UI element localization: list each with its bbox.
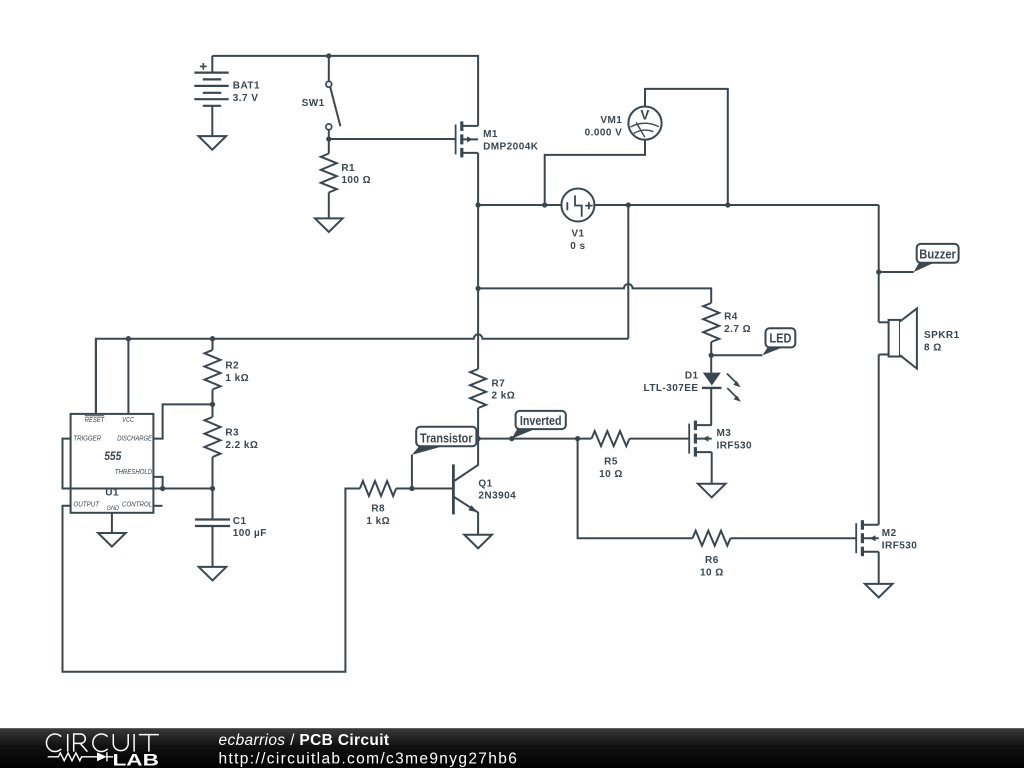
R7 label [492, 378, 516, 401]
resistor R4 [703, 303, 719, 355]
svg-text:TRIGGER: TRIGGER [73, 434, 101, 443]
junction VCC rail / VCC pin [126, 336, 131, 341]
svg-text:RESET: RESET [85, 415, 105, 424]
svg-text:CONTROL: CONTROL [122, 500, 152, 509]
voltmeter VM1 [628, 107, 661, 140]
wire right rail mid to speaker top [878, 205, 880, 322]
SW1 label [302, 98, 325, 109]
svg-text:OUTPUT: OUTPUT [73, 500, 99, 509]
svg-text:Transistor: Transistor [420, 430, 473, 445]
svg-text:BAT1: BAT1 [233, 81, 260, 92]
op-amp U1 555 timer box [71, 414, 154, 513]
svg-text:8 Ω: 8 Ω [924, 343, 942, 354]
wire mid rail right of V1 [594, 204, 878, 206]
ground below R1 [315, 218, 343, 232]
transistor M2 label [882, 528, 918, 551]
battery BAT1 [194, 56, 228, 136]
resistor R1 [321, 139, 337, 218]
resistor R5 [592, 431, 690, 446]
svg-text:100 µF: 100 µF [233, 528, 267, 539]
resistor R3 [205, 404, 221, 488]
U1 label [105, 487, 119, 498]
svg-text:2.7 Ω: 2.7 Ω [724, 324, 751, 335]
wire TRIGGER to threshold rail [63, 439, 213, 489]
transistor M3 [689, 421, 712, 457]
voltage source V1 [561, 189, 594, 222]
svg-text:DISCHARGE: DISCHARGE [117, 434, 152, 443]
CircuitLab logo [46, 734, 158, 768]
footer title text [219, 732, 519, 768]
wire 555 GND stub [111, 513, 113, 533]
SPKR1 label [924, 330, 960, 353]
transistor M1 [456, 121, 479, 157]
junction R7 / Q1 collector / inverted rail [475, 436, 480, 441]
wire speaker bottom to M2 drain [878, 355, 880, 525]
junction threshold rail / THRESHOLD pin [160, 486, 165, 491]
wire THRESHOLD pin stub [153, 477, 162, 489]
resistor R2 [205, 339, 221, 405]
svg-text:SW1: SW1 [302, 98, 325, 109]
transistor M3 label [717, 428, 753, 451]
svg-text:555: 555 [104, 451, 122, 463]
footer bar [0, 728, 1024, 768]
Q1 label [478, 478, 516, 501]
svg-text:LTL-307EE: LTL-307EE [644, 383, 699, 394]
transistor Q1 [453, 439, 478, 535]
svg-text:0.000 V: 0.000 V [585, 128, 623, 139]
C1 label [233, 516, 267, 539]
ground below C1 [199, 567, 227, 581]
svg-text:Q1: Q1 [478, 478, 492, 489]
junction M1 drain / mid rail [475, 202, 480, 207]
svg-text:ecbarrios / PCB Circuit: ecbarrios / PCB Circuit [219, 732, 390, 749]
svg-text:10 Ω: 10 Ω [599, 469, 623, 480]
junction mid rail / VM1 return [542, 202, 547, 207]
svg-text:SPKR1: SPKR1 [924, 330, 960, 341]
V1 label [570, 229, 585, 252]
svg-text:3.7 V: 3.7 V [233, 93, 259, 104]
svg-text:2 kΩ: 2 kΩ [492, 391, 516, 402]
ground below Q1 [464, 535, 492, 549]
R5 label [599, 457, 623, 480]
junction R3 / C1 / threshold rail [210, 486, 215, 491]
transistor M2 [856, 520, 879, 556]
svg-text:C1: C1 [233, 516, 247, 527]
ground below BAT1 [199, 136, 227, 150]
R4 label [724, 312, 751, 335]
svg-text:LED: LED [769, 331, 791, 346]
R6 label [700, 555, 724, 578]
svg-text:R8: R8 [371, 504, 385, 515]
junction inverted rail / R6 branch [575, 436, 580, 441]
svg-text:LAB: LAB [113, 750, 159, 768]
svg-text:R5: R5 [604, 457, 618, 468]
junction VCC rail / R2 [210, 336, 215, 341]
switch SW1 [326, 56, 341, 139]
svg-text:10 Ω: 10 Ω [700, 567, 724, 578]
wire DISCHARGE to R2-R3 node [153, 404, 212, 438]
svg-text:IRF530: IRF530 [717, 441, 753, 452]
junction mid rail / VM1 top lead [725, 202, 730, 207]
junction top rail / SW1 [326, 53, 331, 58]
ground below M2 [865, 584, 893, 598]
svg-text:DMP2004K: DMP2004K [483, 142, 539, 153]
svg-text:2.2 kΩ: 2.2 kΩ [225, 440, 258, 451]
junction M1 drain line / R4 rail [475, 286, 480, 291]
transistor M1 label [483, 129, 539, 152]
junction SW1 / R1 / M1 gate [326, 136, 331, 141]
svg-text:GND: GND [107, 505, 120, 512]
svg-text:VM1: VM1 [600, 115, 622, 126]
junction R4 / D1 / LED flag [709, 353, 714, 358]
wire M3 source to ground [711, 452, 713, 484]
D1 label [644, 371, 699, 394]
node flag LED [711, 328, 795, 355]
node flag Buzzer [879, 244, 959, 272]
wire mid rail left of V1 [478, 204, 561, 206]
wire inverted rail [478, 438, 591, 440]
junction right rail / Buzzer flag [876, 269, 881, 274]
wire mid rail down to 555 VCC rail [627, 205, 629, 339]
wire VM1 top lead [645, 89, 728, 205]
wire CONTROL stub [153, 505, 162, 507]
wire M2 source to ground [878, 552, 880, 584]
svg-text:Inverted: Inverted [520, 413, 562, 428]
R1 label [341, 163, 371, 186]
svg-text:VCC: VCC [122, 415, 134, 424]
ground below 555 [98, 533, 126, 547]
junction inverted rail / Inverted flag [509, 436, 514, 441]
ground below M3 [698, 484, 726, 498]
svg-text:Buzzer: Buzzer [919, 246, 956, 261]
svg-text:M3: M3 [717, 428, 732, 439]
VM1 label [585, 115, 623, 138]
speaker SPKR1 [879, 308, 917, 368]
svg-text:M1: M1 [483, 129, 498, 140]
wire RESET pin stub [95, 339, 97, 414]
svg-text:R7: R7 [492, 378, 506, 389]
R8 label [366, 504, 390, 527]
wire VM1 bottom lead [545, 140, 645, 205]
BAT1 label [233, 81, 260, 104]
svg-text:R3: R3 [225, 428, 239, 439]
pin RESET overline [85, 415, 105, 417]
svg-text:R2: R2 [225, 361, 239, 372]
wire top rail from BAT1 to M1 source [212, 56, 478, 126]
svg-text:http://circuitlab.com/c3me9nyg: http://circuitlab.com/c3me9nyg27hb6 [219, 751, 519, 768]
node flag Inverted [512, 411, 566, 439]
junction R8 / Q1 base / Transistor flag [409, 486, 414, 491]
svg-text:IRF530: IRF530 [882, 540, 918, 551]
R2 label [225, 361, 249, 384]
svg-text:THRESHOLD: THRESHOLD [115, 467, 152, 476]
diode D1 LED [702, 355, 741, 425]
svg-text:1 kΩ: 1 kΩ [366, 516, 390, 527]
svg-text:V1: V1 [571, 229, 584, 240]
svg-text:V: V [640, 108, 649, 123]
junction mid rail / 555 supply branch [626, 202, 631, 207]
svg-text:0 s: 0 s [570, 241, 585, 252]
wire inverted rail down to R6 [578, 439, 693, 539]
wire SW1-R1 node to M1 gate [329, 138, 456, 140]
wire OUTPUT to R8 [63, 489, 360, 672]
svg-text:R6: R6 [705, 555, 719, 566]
wire mid rail to R4 (hops over 555 branch) [478, 284, 711, 303]
svg-text:M2: M2 [882, 528, 897, 539]
wire M1 drain down to R7 [477, 153, 479, 369]
svg-text:2N3904: 2N3904 [478, 491, 516, 502]
svg-text:1 kΩ: 1 kΩ [225, 373, 249, 384]
wire 555 VCC rail (hops over R7 line) [96, 334, 628, 414]
resistor R8 [360, 481, 454, 496]
capacitor C1 [195, 489, 230, 567]
svg-text:R4: R4 [724, 312, 738, 323]
node flag Transistor [412, 427, 477, 489]
svg-text:D1: D1 [685, 371, 699, 382]
svg-text:100 Ω: 100 Ω [341, 175, 371, 186]
resistor R7 [470, 369, 486, 439]
wire VCC pin stub [127, 339, 129, 414]
svg-text:R1: R1 [341, 163, 355, 174]
junction R2 / R3 / DISCHARGE [210, 402, 215, 407]
R3 label [225, 428, 258, 451]
resistor R6 [693, 531, 857, 546]
